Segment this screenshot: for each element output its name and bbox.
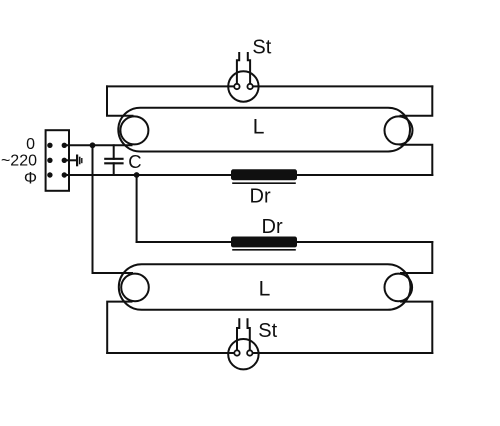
terminal dot phase left (47, 172, 52, 177)
starter St2 left pin (234, 350, 239, 355)
starter St2 envelope (228, 339, 258, 369)
wire starter1 top line right segment (250, 85, 432, 87)
capacitor C top plate (105, 158, 122, 160)
ground chassis bar 1 (76, 156, 78, 166)
ground chassis bar 2 (79, 158, 81, 164)
starter St1 left pin (234, 84, 239, 89)
starter St1 right pin (247, 84, 252, 89)
terminal dot 0 left (47, 143, 52, 148)
wire starter2 bottom line left segment (107, 352, 237, 354)
lamp L1 left electrode (120, 116, 148, 144)
svg-text:Dr: Dr (250, 185, 271, 207)
wire lamp2 right electrode down to starter2 line (401, 302, 432, 353)
svg-text:0: 0 (26, 136, 35, 153)
wire left drop from starter line to lamp1 left electrode (107, 86, 133, 115)
svg-text:C: C (128, 151, 141, 172)
wire mains 0 branch down to lamp2 left electrode (93, 145, 133, 273)
node junction phase (134, 172, 140, 178)
node junction mains 0 (90, 142, 96, 148)
choke Dr1 body (232, 170, 296, 179)
wire starter2 bottom line right segment (250, 352, 432, 354)
wire right drop from Dr2 to lamp2 right electrode (401, 242, 432, 273)
capacitor C bottom plate (105, 162, 122, 164)
wire right drop from starter line to lamp1 right electrode (401, 86, 433, 115)
wire starter1 top line left segment (107, 85, 237, 87)
lamp L1 tube (118, 108, 410, 152)
choke Dr1 core line (233, 182, 295, 184)
starter St2 left electrode (237, 319, 239, 351)
wire lamp2 left electrode down to starter2 line (107, 302, 131, 353)
starter St2 right pin (247, 350, 252, 355)
choke Dr2 core line (233, 249, 295, 251)
terminal dot 0 right (62, 143, 67, 148)
svg-text:St: St (252, 37, 271, 59)
lamp L2 tube (119, 264, 411, 310)
svg-text:L: L (253, 115, 265, 138)
starter St1 left electrode (237, 53, 239, 85)
starter St2 right electrode (248, 319, 250, 351)
capacitor C bottom lead (113, 163, 115, 175)
svg-text:Φ: Φ (24, 169, 37, 187)
wire mains 0 from terminal to lamp1 left electrode (64, 144, 131, 146)
capacitor C top lead (113, 145, 115, 159)
svg-text:~220: ~220 (1, 153, 37, 170)
svg-text:L: L (259, 277, 271, 300)
terminal block (46, 130, 69, 191)
wire Dr2 horizontal run (137, 241, 433, 243)
lamp L2 left electrode (121, 274, 149, 302)
terminal dot 220 left (47, 158, 52, 163)
svg-text:St: St (258, 320, 277, 342)
terminal dot 220 right (62, 158, 67, 163)
ground chassis bar 3 (81, 159, 83, 163)
wire right vertical lamp1 right electrode to Dr1 wire (401, 145, 433, 175)
svg-text:Dr: Dr (262, 216, 283, 238)
wire PE lead from middle terminal (64, 159, 76, 161)
starter St1 envelope (228, 71, 258, 101)
lamp L1 right electrode (385, 116, 413, 144)
starter St1 right electrode (248, 53, 250, 85)
wire node branch down from junction to Dr2 wire (136, 175, 138, 242)
lamp L2 right electrode (385, 274, 413, 302)
choke Dr2 body (232, 238, 296, 247)
wire phase from terminal through Dr1 to right side (64, 174, 432, 176)
terminal dot phase right (62, 172, 67, 177)
